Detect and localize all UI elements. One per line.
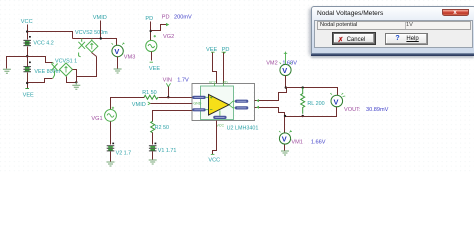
svg-text:VOUT:: VOUT: xyxy=(344,107,361,113)
wire VCC label to rail xyxy=(27,25,29,40)
node VEE bottom label xyxy=(23,89,34,99)
node VCC below op-amp xyxy=(208,121,220,164)
svg-text:VMID: VMID xyxy=(132,102,146,108)
svg-text:U2 LMH3401: U2 LMH3401 xyxy=(227,125,259,131)
svg-text:R1 50: R1 50 xyxy=(142,90,156,96)
dialog client area xyxy=(314,20,473,48)
node junction VIN xyxy=(167,96,169,98)
wire VMID to op-amp pin2 xyxy=(151,103,193,105)
wire op-amp output minus xyxy=(255,106,285,117)
svg-text:30.89mV: 30.89mV xyxy=(366,107,389,113)
node junction VCC rail xyxy=(26,30,28,32)
svg-text:VIN: VIN xyxy=(163,77,172,83)
wire V2 to ground xyxy=(110,152,112,162)
wire bottom output rail xyxy=(285,107,337,117)
source VCVS2 diamond xyxy=(75,30,108,57)
wire VCVS1 right tip down xyxy=(73,70,77,83)
wire VG1 to V2 xyxy=(110,122,112,145)
svg-text:VM1: VM1 xyxy=(291,140,303,146)
ground VCVS1 xyxy=(72,82,80,89)
node junction VM1 bottom rail xyxy=(284,115,286,117)
ground V1 xyxy=(149,160,157,164)
wire top rail VCVS2 to VM3 xyxy=(73,39,117,46)
wire VG1 to R1 xyxy=(111,98,145,110)
svg-text:VM3: VM3 xyxy=(124,55,136,61)
resistor R2 50 xyxy=(151,121,169,133)
battery VEE 800m xyxy=(23,62,60,75)
test point VIN 1.7V xyxy=(163,77,189,97)
meter VOUT 30.89mV xyxy=(330,93,388,113)
meter VM1 xyxy=(279,117,326,151)
node PD top label xyxy=(145,16,153,40)
button Help xyxy=(385,33,428,45)
wire R2 to V1 xyxy=(152,133,154,145)
svg-text:1.7V: 1.7V xyxy=(177,77,189,83)
svg-text:V: V xyxy=(282,66,287,75)
battery V1 1.71 xyxy=(149,143,176,154)
node VMID top label xyxy=(93,15,107,39)
battery V2 1.7 xyxy=(107,143,131,157)
wire R2 top to op-amp pin3 xyxy=(153,111,193,122)
wire VCVS1 output to ground junction xyxy=(67,77,77,83)
ground VM3 xyxy=(114,69,122,73)
node junction VEE rail xyxy=(26,82,28,84)
grid background xyxy=(0,0,474,174)
svg-text:VEE: VEE xyxy=(23,92,34,98)
svg-text:VCC 4.2: VCC 4.2 xyxy=(33,41,53,47)
grid row: Nodal potential = 1V xyxy=(317,21,472,31)
node junction RL top xyxy=(302,86,304,88)
ground V2 xyxy=(107,162,115,166)
ground left xyxy=(3,69,11,73)
op-amp U2 LMH3401 xyxy=(192,81,258,132)
wire VEE battery down xyxy=(27,73,29,89)
dialog bottom frame strip xyxy=(311,53,474,56)
svg-text:PD: PD xyxy=(145,16,153,22)
node VCC top label xyxy=(21,19,33,25)
node PD above op-amp xyxy=(222,47,230,84)
svg-text:VCVS2 500m: VCVS2 500m xyxy=(75,30,108,36)
op-amp VCVS2 input port xyxy=(78,39,85,57)
wire VEE junction to VCVS1 input minus xyxy=(28,79,53,83)
svg-text:VCC: VCC xyxy=(21,19,33,25)
resistor R1 50 xyxy=(142,90,158,99)
node VEE above op-amp xyxy=(206,47,217,84)
wire VCC junction to VCVS2 xyxy=(28,32,73,39)
net label VMID middle xyxy=(132,102,150,108)
svg-text:VMID: VMID xyxy=(93,15,107,21)
svg-text:VCC: VCC xyxy=(217,124,225,128)
svg-text:VEE: VEE xyxy=(149,66,160,72)
node junction VCVS ground xyxy=(75,81,77,83)
svg-text:R2 50: R2 50 xyxy=(155,125,169,131)
svg-text:V: V xyxy=(334,97,339,106)
source VG2 xyxy=(146,34,175,51)
svg-text:V: V xyxy=(282,135,287,144)
svg-text:VCC: VCC xyxy=(209,81,217,85)
svg-text:RL 200: RL 200 xyxy=(307,101,324,107)
wire VCC battery to VEE battery xyxy=(27,47,29,67)
source VG1 xyxy=(91,107,116,122)
svg-text:200mV: 200mV xyxy=(174,15,192,21)
svg-text:VG2: VG2 xyxy=(163,34,174,40)
svg-text:VM2: VM2 xyxy=(266,60,278,66)
node junction mid rail xyxy=(26,55,28,57)
ground VM1 xyxy=(281,151,289,155)
button Cancel xyxy=(333,33,375,44)
node VEE under VG2 xyxy=(149,52,160,72)
node junction VMID rail xyxy=(100,37,102,39)
wire top output rail xyxy=(286,88,338,96)
node junction RL bottom xyxy=(302,115,304,117)
svg-text:GND: GND xyxy=(193,102,201,106)
test point PD 200mV xyxy=(151,15,192,31)
close button xyxy=(442,9,469,16)
meter VM2 xyxy=(266,52,297,88)
dialog title xyxy=(317,10,383,17)
meter VM3 xyxy=(112,43,136,61)
wire mid junction left to ground xyxy=(7,57,28,69)
dialog Nodal Voltages/Meters xyxy=(311,6,474,53)
op-amp VCVS1 input port xyxy=(51,62,57,78)
wire R1 to op-amp IN xyxy=(159,97,193,99)
source VCVS1 diamond xyxy=(55,59,77,76)
svg-text:V1 1.71: V1 1.71 xyxy=(158,148,177,154)
battery VCC 4.2 xyxy=(23,36,53,47)
svg-text:VCC: VCC xyxy=(208,157,220,163)
svg-text:VCVS1 1: VCVS1 1 xyxy=(55,59,77,65)
wire VM3 to ground xyxy=(117,57,119,69)
wire VCVS2 bottom to ground junction xyxy=(77,57,97,83)
node junction PD xyxy=(150,30,152,32)
wire op-amp output plus xyxy=(255,88,287,103)
wire V1 to ground xyxy=(152,152,154,160)
svg-text:V2 1.7: V2 1.7 xyxy=(116,150,132,156)
resistor RL 200 xyxy=(301,88,325,114)
wire mid junction to VCVS1 input xyxy=(28,57,53,63)
node junction VM2 top rail xyxy=(285,86,287,88)
svg-text:1.66V: 1.66V xyxy=(311,140,326,146)
svg-text:VG1: VG1 xyxy=(91,116,102,122)
svg-text:V: V xyxy=(114,47,119,56)
svg-text:PD: PD xyxy=(162,15,170,21)
